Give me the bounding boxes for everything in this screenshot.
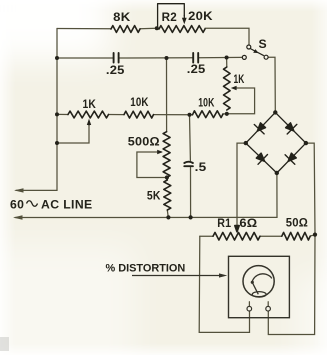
potentiometer R1 6 ohm body — [213, 232, 260, 240]
wire: row3 right end to 1K pot bottom node — [223, 113, 227, 115]
node: bridge top — [273, 110, 277, 114]
node: bus/row2 — [55, 56, 59, 60]
resistor 10K (first) — [124, 111, 154, 118]
wire: row3 between 10K and .5 node — [154, 114, 193, 116]
1K wiper arrow (up) — [88, 123, 90, 126]
svg-text:6Ω: 6Ω — [239, 216, 257, 230]
wire: right 1K pot wiper box — [227, 88, 255, 114]
node: row2 right 1K top — [225, 56, 229, 60]
resistor 10K (second) — [193, 111, 224, 118]
wire: right meter loop — [268, 234, 315, 334]
wire: left vertical bus — [56, 29, 58, 191]
wire: 60-cycle AC line upper lead — [16, 189, 57, 191]
label 60~ AC LINE — [10, 198, 93, 212]
R2 wiper arrow — [183, 16, 185, 21]
svg-text:8K: 8K — [113, 10, 130, 24]
wire: right 1K pot top lead — [226, 58, 228, 67]
wire: center bus from row2 down to 500 ohm — [166, 58, 168, 132]
wire: row2 between cap1 and cap2 — [120, 57, 193, 59]
capacitor .25 (right) plates — [193, 53, 198, 63]
wire: between R1 and 50 ohm — [260, 235, 282, 237]
svg-text:R1: R1 — [217, 216, 231, 230]
resistor 8K — [111, 26, 140, 33]
meter terminals — [247, 306, 252, 311]
AC line arrowheads — [14, 188, 24, 192]
node: bus/row3 — [55, 112, 59, 116]
wire: row3 between 1K and 10K — [109, 114, 125, 116]
svg-text:10K: 10K — [130, 95, 148, 109]
wire: R1 row left lead — [200, 235, 213, 237]
wire: meter terminal stubs — [249, 302, 268, 307]
diode D2 (top-right arm) — [286, 123, 294, 131]
wire: row2 from cap2 to switch left contact — [199, 56, 242, 58]
svg-text:R2: R2 — [162, 10, 177, 24]
diode D4 (bottom-right arm) — [288, 153, 296, 161]
node: top row R2 left — [155, 26, 159, 30]
node: bridge right — [304, 141, 308, 145]
right 1K wiper arrow (left) — [231, 86, 237, 91]
500 ohm wiper arrow (right) — [157, 150, 163, 154]
switch S blade — [250, 49, 264, 56]
diode D3 (bottom-left arm) — [256, 153, 264, 161]
wire: 60-cycle AC line lower lead (bottom bus) — [15, 173, 277, 218]
wire: top row left segment — [57, 28, 111, 30]
svg-text:1K: 1K — [83, 97, 97, 111]
meter box — [229, 256, 290, 317]
svg-text:S: S — [259, 37, 267, 51]
node: 500/5K junction — [165, 175, 169, 179]
R1 wiper arrowhead (down) — [235, 226, 239, 232]
wire: bridge right corner to right vertical — [306, 143, 315, 234]
svg-text:50Ω: 50Ω — [286, 215, 308, 229]
svg-text:% DISTORTION: % DISTORTION — [106, 263, 186, 275]
wire: switch right contact to bridge top — [268, 57, 275, 110]
svg-text:5K: 5K — [147, 188, 161, 202]
potentiometer 1K (right) body vertical — [224, 67, 231, 110]
svg-text:60: 60 — [10, 198, 24, 212]
switch S contacts — [242, 45, 268, 59]
node: 5K bottom on bus — [166, 215, 170, 219]
svg-text:.5: .5 — [195, 160, 207, 174]
diode D1 (top-left arm) — [257, 123, 265, 131]
wire: .5 cap bottom lead — [190, 168, 192, 218]
wire: top row right of 20K to corner, down to switch — [205, 28, 249, 45]
percent distortion pointer line — [132, 275, 222, 277]
node: bridge left — [244, 141, 248, 145]
meter needle tip blob — [251, 281, 254, 284]
meter needle — [253, 283, 259, 294]
svg-text:10K: 10K — [198, 95, 214, 109]
node: 50 ohm right — [313, 233, 317, 237]
svg-text:AC LINE: AC LINE — [41, 198, 93, 212]
node: 1K pot bottom — [225, 112, 229, 116]
meter face circle — [243, 266, 274, 297]
potentiometer 1K (left) body — [68, 111, 109, 118]
wire: 500 ohm wiper box — [137, 152, 167, 178]
wire: top row between 8K and R2 node — [140, 27, 157, 30]
wire: .5 cap top lead — [189, 115, 192, 161]
node: row3 .5 cap — [188, 113, 192, 117]
svg-text:.25: .25 — [187, 62, 206, 76]
meter hub ellipse — [252, 292, 266, 298]
bridge diamond wires — [246, 112, 306, 173]
wire: row2 left segment to cap .25 — [57, 57, 113, 59]
potentiometer R2 20K body — [159, 26, 205, 33]
R2 wiper strap box — [158, 4, 185, 27]
svg-text:1K: 1K — [234, 72, 245, 86]
wire: row3 left of 1K pot — [57, 113, 68, 115]
potentiometer 500 ohm body vertical — [163, 132, 170, 178]
resistor 5K vertical — [164, 180, 171, 210]
svg-text:20K: 20K — [188, 9, 213, 23]
node: bridge bottom — [275, 171, 279, 175]
meter scale arc — [252, 274, 272, 283]
scan smudge bottom-left — [0, 337, 9, 351]
resistor 50 ohm — [282, 232, 310, 240]
capacitor .25 (left) plates — [114, 53, 119, 63]
wire: bridge left corner to R1 wiper drop — [237, 143, 246, 226]
node: .5 bottom on bus — [189, 215, 193, 219]
wire: 5K bottom lead to bus — [167, 210, 168, 217]
sine symbol in 60~ AC LINE — [27, 201, 38, 207]
wire: left meter loop — [199, 236, 249, 332]
svg-text:.25: .25 — [106, 63, 125, 77]
wire: 50 ohm right lead to node — [310, 235, 315, 236]
switch blade arrowhead — [253, 49, 258, 53]
svg-text:500Ω: 500Ω — [128, 134, 160, 148]
capacitor .5 plates — [184, 162, 193, 167]
node: bus/wiper return — [55, 141, 59, 145]
wire: 1K pot wiper stem and return to bus — [57, 125, 89, 144]
node: row2 center bus — [165, 56, 169, 60]
